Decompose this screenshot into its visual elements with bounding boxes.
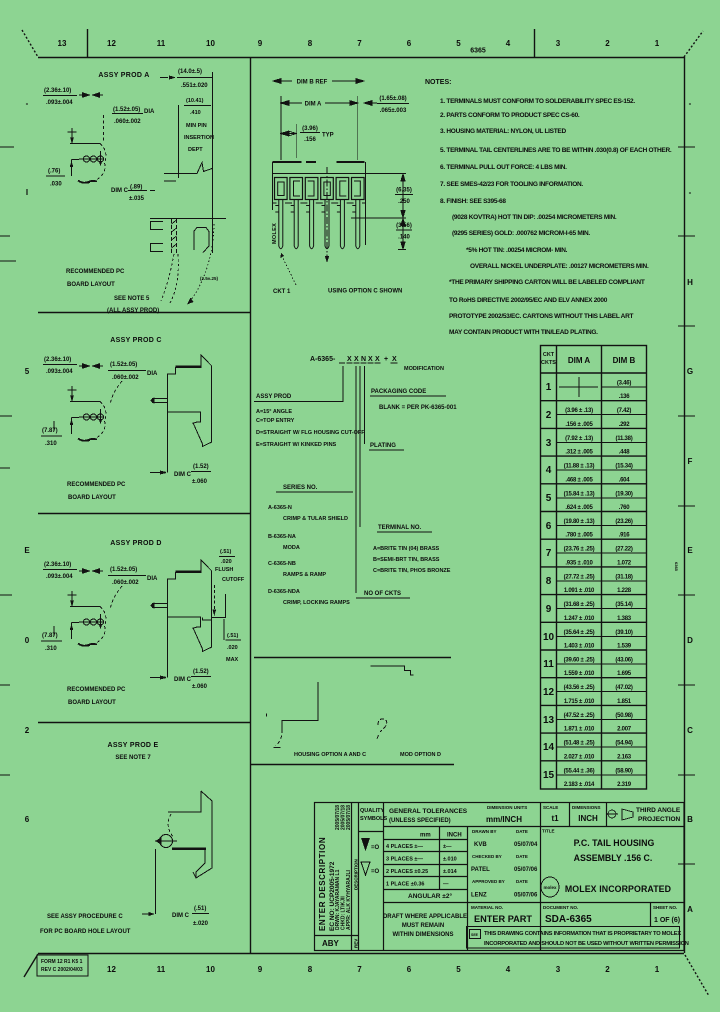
svg-text:HOUSING OPTION A AND C: HOUSING OPTION A AND C xyxy=(294,752,366,758)
svg-text:.780 ± .005: .780 ± .005 xyxy=(565,533,593,539)
section A pin dia fraction xyxy=(113,107,155,125)
svg-text:1.695: 1.695 xyxy=(617,671,632,677)
assy prod leader xyxy=(254,366,365,448)
packaging code label xyxy=(370,389,457,411)
svg-text:ASSY PROD C: ASSY PROD C xyxy=(110,337,161,344)
zone letters left edge xyxy=(24,99,30,824)
svg-text:7: 7 xyxy=(357,39,362,48)
svg-text:-: - xyxy=(689,99,692,108)
svg-text:.410: .410 xyxy=(190,110,201,116)
svg-text:APPROVED BY: APPROVED BY xyxy=(472,879,505,884)
svg-text:11: 11 xyxy=(157,39,166,48)
svg-text:6: 6 xyxy=(25,815,30,824)
svg-text:A-6365-N: A-6365-N xyxy=(268,505,292,511)
plating leader xyxy=(365,366,405,450)
svg-text:DIMENSIONS: DIMENSIONS xyxy=(572,805,601,810)
section D pin dia fraction xyxy=(110,567,158,586)
svg-text:PLATING: PLATING xyxy=(370,443,396,449)
svg-text:.065±.003: .065±.003 xyxy=(380,108,407,114)
svg-text:(54.94): (54.94) xyxy=(615,741,633,747)
section D pcb motif xyxy=(68,591,106,646)
svg-text:mm/INCH: mm/INCH xyxy=(486,815,522,824)
svg-text:1. TERMINALS MUST CONFORM TO: 1. TERMINALS MUST CONFORM TO SOLDERABILI… xyxy=(440,98,635,105)
svg-text:1.383: 1.383 xyxy=(617,616,632,622)
svg-text:SDA-6365: SDA-6365 xyxy=(545,914,592,925)
svg-text:(31.18): (31.18) xyxy=(615,574,633,580)
section divider A/C xyxy=(38,312,250,314)
svg-text:(39.10): (39.10) xyxy=(615,630,633,636)
table fraction bars xyxy=(557,377,646,775)
section C hole dim fraction xyxy=(44,357,73,375)
svg-text:(7.42): (7.42) xyxy=(617,408,631,414)
end clearance fraction xyxy=(377,96,409,114)
svg-text:DIA: DIA xyxy=(147,576,158,582)
svg-text:.020: .020 xyxy=(221,559,232,565)
table headers xyxy=(541,352,636,366)
svg-text:2005/07/18: 2005/07/18 xyxy=(346,805,352,830)
svg-text:8: 8 xyxy=(308,39,313,48)
section A hole depth fraction xyxy=(48,169,62,188)
svg-text:11: 11 xyxy=(157,965,166,974)
svg-text:12: 12 xyxy=(107,39,116,48)
dim A dimension xyxy=(281,96,377,160)
svg-text:1.228: 1.228 xyxy=(617,588,632,594)
svg-text:QUALITY: QUALITY xyxy=(360,808,384,814)
svg-text:BOARD LAYOUT: BOARD LAYOUT xyxy=(67,282,115,288)
svg-text:1.091 ± .010: 1.091 ± .010 xyxy=(564,588,595,594)
svg-text:(2.5±.25): (2.5±.25) xyxy=(200,276,218,281)
svg-text:(11.38): (11.38) xyxy=(616,436,633,442)
svg-text:.093±.004: .093±.004 xyxy=(46,574,73,580)
svg-text:+: + xyxy=(384,356,388,363)
svg-text:(1.52): (1.52) xyxy=(193,464,209,470)
svg-text:6365: 6365 xyxy=(674,562,679,572)
svg-text:.093±.004: .093±.004 xyxy=(46,100,73,106)
kinked pin squiggle xyxy=(377,719,387,740)
third angle projection symbol xyxy=(606,807,681,823)
section D side profile xyxy=(150,560,212,680)
svg-text:±.035: ±.035 xyxy=(129,196,145,202)
svg-text:8. FINISH: SEE S395-68: 8. FINISH: SEE S395-68 xyxy=(440,198,506,205)
zone letters right edge xyxy=(687,99,693,914)
svg-text:INCORPORATED AND SHOULD NOT BE: INCORPORATED AND SHOULD NOT BE USED WITH… xyxy=(484,941,689,947)
svg-text:N: N xyxy=(361,356,366,363)
svg-text:INCH: INCH xyxy=(447,833,462,839)
svg-text:RECOMMENDED PC: RECOMMENDED PC xyxy=(66,269,125,275)
svg-text:(1.52): (1.52) xyxy=(193,669,209,675)
fold tick top right xyxy=(534,29,536,57)
svg-text:CKTS: CKTS xyxy=(541,360,556,366)
svg-text:(6.35): (6.35) xyxy=(396,188,412,194)
svg-text:SEE NOTE 5: SEE NOTE 5 xyxy=(114,296,150,302)
svg-text:8: 8 xyxy=(546,576,552,587)
svg-text:G: G xyxy=(687,367,693,376)
fold tick top left xyxy=(87,29,89,57)
svg-text:BOARD LAYOUT: BOARD LAYOUT xyxy=(68,700,116,706)
housing option A/C sketch xyxy=(266,682,318,748)
svg-text:*5% HOT TIN: .00254 MICROM- MI: *5% HOT TIN: .00254 MICROM- MIN. xyxy=(466,247,568,254)
svg-text:BOARD LAYOUT: BOARD LAYOUT xyxy=(68,495,116,501)
left column divider xyxy=(250,57,252,953)
ckt 1 leader xyxy=(273,253,296,295)
svg-text:C=TOP ENTRY: C=TOP ENTRY xyxy=(256,418,295,424)
svg-text:13: 13 xyxy=(58,39,67,48)
zone ticks left edge xyxy=(0,147,16,775)
svg-text:6: 6 xyxy=(546,521,552,532)
svg-text:X: X xyxy=(392,356,397,363)
svg-text:A=BRITE TIN (04) BRASS: A=BRITE TIN (04) BRASS xyxy=(373,546,439,552)
svg-text:1: 1 xyxy=(546,382,552,393)
svg-text:RAMPS & RAMP: RAMPS & RAMP xyxy=(283,572,326,578)
svg-text:.468 ± .005: .468 ± .005 xyxy=(565,477,593,483)
svg-text:±.020: ±.020 xyxy=(193,921,209,927)
svg-text:(47.02): (47.02) xyxy=(615,685,633,691)
svg-text:7. SEE SMES-42/23 FOR TOOLING: 7. SEE SMES-42/23 FOR TOOLING INFORMATIO… xyxy=(440,181,583,188)
svg-text:H: H xyxy=(687,278,693,287)
svg-text:3 PLACES ±—: 3 PLACES ±— xyxy=(386,857,423,863)
svg-text:(3.96): (3.96) xyxy=(302,126,318,132)
svg-text:SERIES NO.: SERIES NO. xyxy=(283,485,318,491)
svg-text:ABY: ABY xyxy=(322,939,340,948)
svg-text:SYMBOLS: SYMBOLS xyxy=(360,816,388,822)
svg-text:.136: .136 xyxy=(619,394,631,400)
svg-text:ASSEMBLY .156 C.: ASSEMBLY .156 C. xyxy=(574,853,653,863)
svg-text:TO RoHS DIRECTIVE 2002/95/EC A: TO RoHS DIRECTIVE 2002/95/EC AND ELV ANN… xyxy=(449,297,608,304)
sign-off column xyxy=(471,829,538,899)
svg-text:2.163: 2.163 xyxy=(617,754,632,760)
svg-text:DRAFT WHERE APPLICABLE: DRAFT WHERE APPLICABLE xyxy=(383,914,467,920)
svg-text:SHEET NO.: SHEET NO. xyxy=(653,905,677,910)
svg-text:X: X xyxy=(375,356,380,363)
section A opposing arrows xyxy=(79,93,103,97)
section E dim c xyxy=(155,849,157,914)
svg-text:.030: .030 xyxy=(50,182,62,188)
svg-text:.310: .310 xyxy=(45,646,57,652)
svg-text:SEE NOTE 7: SEE NOTE 7 xyxy=(115,755,151,761)
svg-text:.020: .020 xyxy=(227,645,238,651)
svg-text:1 PLACE ±0.36: 1 PLACE ±0.36 xyxy=(386,882,424,888)
svg-text:3: 3 xyxy=(556,39,561,48)
svg-text:7: 7 xyxy=(546,548,552,559)
svg-text:A=15° ANGLE: A=15° ANGLE xyxy=(256,409,292,415)
svg-text:(1.52±.05): (1.52±.05) xyxy=(110,362,137,368)
svg-text:(39.60 ± .25): (39.60 ± .25) xyxy=(564,658,595,664)
svg-text:WITHIN DIMENSIONS: WITHIN DIMENSIONS xyxy=(393,932,454,938)
svg-text:MUST REMAIN: MUST REMAIN xyxy=(402,923,444,929)
section C pcb motif xyxy=(68,386,106,441)
circuit size table grid xyxy=(541,346,647,790)
svg-text:DIA: DIA xyxy=(147,371,158,377)
svg-text:DIM B REF: DIM B REF xyxy=(297,80,328,86)
svg-text:CKT 1: CKT 1 xyxy=(273,289,291,295)
svg-text:.935 ± .010: .935 ± .010 xyxy=(565,560,593,566)
table DIM A values xyxy=(564,408,595,788)
svg-text:E=STRAIGHT W/ KINKED PINS: E=STRAIGHT W/ KINKED PINS xyxy=(256,442,337,448)
pitch dimension 3.96 xyxy=(281,124,296,158)
section C hole spacing fraction xyxy=(42,428,58,447)
svg-text:(1.65±.08): (1.65±.08) xyxy=(379,96,406,102)
svg-text:CRIMP & TULAR SHIELD: CRIMP & TULAR SHIELD xyxy=(283,516,348,522)
svg-text:(.76): (.76) xyxy=(48,169,60,175)
svg-text:D-6365-NDA: D-6365-NDA xyxy=(268,589,300,595)
section divider D/E xyxy=(38,722,250,724)
general tolerances cell xyxy=(386,808,468,900)
svg-text:7: 7 xyxy=(357,965,362,974)
svg-text:.093±.004: .093±.004 xyxy=(46,369,73,375)
svg-text:1.559 ± .010: 1.559 ± .010 xyxy=(564,671,595,677)
svg-text:.060±.002: .060±.002 xyxy=(112,580,139,586)
right side stacked dimensions xyxy=(351,174,406,250)
svg-text:INCH: INCH xyxy=(578,814,598,823)
svg-text:ASSY PROD D: ASSY PROD D xyxy=(110,540,161,547)
svg-text:B=SEMI-BRT TIN, BRASS: B=SEMI-BRT TIN, BRASS xyxy=(373,557,440,563)
section divider C/D xyxy=(38,513,250,515)
zone ticks right edge xyxy=(678,147,695,864)
contact cavities xyxy=(275,178,365,200)
svg-text:10: 10 xyxy=(543,632,555,643)
dim B ref dimension xyxy=(273,79,364,84)
svg-text:15: 15 xyxy=(543,770,555,781)
section D hole dim fraction xyxy=(44,562,73,580)
svg-text:NO OF CKTS: NO OF CKTS xyxy=(364,591,401,597)
svg-text:5. TERMINAL TAIL CENTERLINES: 5. TERMINAL TAIL CENTERLINES ARE TO BE W… xyxy=(440,147,672,154)
svg-text:±—: ±— xyxy=(443,844,452,850)
svg-text:(.51): (.51) xyxy=(220,549,231,555)
svg-text:X: X xyxy=(347,356,352,363)
section A long extension line xyxy=(211,72,213,253)
svg-text:05/07/06: 05/07/06 xyxy=(514,893,538,899)
svg-text:—: — xyxy=(443,882,449,888)
svg-text:1.539: 1.539 xyxy=(617,644,632,650)
svg-text:CUTOFF: CUTOFF xyxy=(222,577,245,583)
svg-text:DATE: DATE xyxy=(516,854,528,859)
section A hole dim fraction xyxy=(44,88,73,106)
section A board line xyxy=(150,218,226,220)
svg-text:PROTOTYPE 2002/53/EC. CARTONS: PROTOTYPE 2002/53/EC. CARTONS WITHOUT TH… xyxy=(449,313,634,320)
svg-text:DIM B: DIM B xyxy=(613,356,636,365)
svg-text:ASSY PROD E: ASSY PROD E xyxy=(107,742,158,749)
svg-text:(1.52±.05): (1.52±.05) xyxy=(110,567,137,573)
svg-text:C-6365-NB: C-6365-NB xyxy=(268,561,296,567)
housing top line xyxy=(273,173,407,175)
section D flush cutoff note xyxy=(215,549,245,583)
svg-text:4: 4 xyxy=(506,965,511,974)
housing left edge xyxy=(272,162,274,210)
svg-text:PATEL: PATEL xyxy=(471,867,490,873)
svg-text:12: 12 xyxy=(543,687,555,698)
svg-text:DIM C: DIM C xyxy=(174,677,192,683)
svg-text:(.51): (.51) xyxy=(227,633,238,639)
svg-text:(35.14): (35.14) xyxy=(615,602,633,608)
svg-text:1 OF (6): 1 OF (6) xyxy=(654,917,680,924)
svg-text:14: 14 xyxy=(543,742,555,753)
svg-text:(27.22): (27.22) xyxy=(615,547,633,553)
svg-text:-: - xyxy=(26,99,29,108)
svg-text:(.89): (.89) xyxy=(130,185,142,191)
svg-text:(3.46): (3.46) xyxy=(617,381,631,387)
svg-text:05/07/06: 05/07/06 xyxy=(514,867,538,873)
svg-text:TERMINAL NO.: TERMINAL NO. xyxy=(378,525,422,531)
svg-text:4: 4 xyxy=(546,465,552,476)
svg-text:(2.36±.10): (2.36±.10) xyxy=(44,562,71,568)
svg-text:.624 ± .005: .624 ± .005 xyxy=(565,505,593,511)
svg-text:ASSY PROD A: ASSY PROD A xyxy=(98,72,149,79)
svg-text:DIM C: DIM C xyxy=(174,472,192,478)
svg-text:B-6365-NA: B-6365-NA xyxy=(268,534,296,540)
section C dashed leader xyxy=(110,381,122,405)
svg-text:05/07/04: 05/07/04 xyxy=(514,842,538,848)
svg-text:2: 2 xyxy=(605,965,610,974)
svg-text:BLANK = PER PK-6365-001: BLANK = PER PK-6365-001 xyxy=(379,405,457,411)
svg-text:MATERIAL NO.: MATERIAL NO. xyxy=(471,905,503,910)
svg-text:LENZ: LENZ xyxy=(471,893,487,899)
corner cut top-right xyxy=(684,31,703,57)
svg-text:REV: REV xyxy=(354,939,359,948)
frame bottom border xyxy=(38,953,684,955)
svg-text:t1: t1 xyxy=(551,814,559,823)
svg-text:(27.72 ± .25): (27.72 ± .25) xyxy=(564,574,595,580)
svg-text:D=STRAIGHT W/ FLG HOUSING CUT-: D=STRAIGHT W/ FLG HOUSING CUT-OFF xyxy=(256,430,365,436)
svg-text:12: 12 xyxy=(107,965,116,974)
series no leader xyxy=(268,485,353,606)
svg-text:E: E xyxy=(24,546,30,555)
frame right border xyxy=(684,57,686,953)
section A dotted leaders xyxy=(161,224,214,303)
svg-text:1.871 ± .010: 1.871 ± .010 xyxy=(564,727,595,733)
svg-text:APPR: ALK KYHYARAJLI: APPR: ALK KYHYARAJLI xyxy=(346,869,352,930)
svg-text:1.403 ± .010: 1.403 ± .010 xyxy=(564,644,595,650)
svg-text:2.007: 2.007 xyxy=(617,727,632,733)
proprietary note box xyxy=(467,927,689,949)
svg-text:(2.36±.10): (2.36±.10) xyxy=(44,88,71,94)
svg-text:DRAWN BY: DRAWN BY xyxy=(472,829,497,834)
svg-text:molex: molex xyxy=(543,885,557,890)
svg-text:.312 ± .005: .312 ± .005 xyxy=(565,450,593,456)
svg-text:DOCUMENT NO.: DOCUMENT NO. xyxy=(543,905,578,910)
svg-text:.156 ± .005: .156 ± .005 xyxy=(565,422,593,428)
svg-text:ENTER DESCRIPTION: ENTER DESCRIPTION xyxy=(318,837,327,931)
housing bottom edge segments xyxy=(273,202,366,204)
terminal no leader xyxy=(360,366,451,574)
svg-text:MAY CONTAIN PRODUCT WITH TIN/L: MAY CONTAIN PRODUCT WITH TIN/LEAD PLATIN… xyxy=(449,329,598,336)
svg-text:RECOMMENDED PC: RECOMMENDED PC xyxy=(67,482,126,488)
svg-text:0: 0 xyxy=(25,636,30,645)
svg-text:(51.48 ± .25): (51.48 ± .25) xyxy=(564,741,595,747)
svg-text:(50.98): (50.98) xyxy=(615,713,633,719)
svg-text:(15.84 ± .13): (15.84 ± .13) xyxy=(564,491,595,497)
svg-text:A-6365-: A-6365- xyxy=(310,356,336,363)
svg-text:DIMENSION UNITS: DIMENSION UNITS xyxy=(487,805,527,810)
svg-text:(10.41): (10.41) xyxy=(186,98,204,104)
svg-text:1.072: 1.072 xyxy=(617,560,632,566)
housing top rails xyxy=(273,161,365,163)
svg-text:MOD OPTION D: MOD OPTION D xyxy=(400,752,441,758)
svg-text:(58.90): (58.90) xyxy=(615,768,633,774)
section A pcb motif xyxy=(68,128,106,183)
svg-text:(UNLESS SPECIFIED): (UNLESS SPECIFIED) xyxy=(389,818,451,824)
svg-text:2: 2 xyxy=(546,410,552,421)
svg-text:2.183 ± .014: 2.183 ± .014 xyxy=(564,782,595,788)
svg-text:.916: .916 xyxy=(619,533,631,539)
svg-text:DATE: DATE xyxy=(516,829,528,834)
svg-text:mm: mm xyxy=(420,833,431,839)
svg-text:ENTER PART: ENTER PART xyxy=(474,914,532,924)
svg-text:FLUSH: FLUSH xyxy=(215,567,233,573)
terminal tails xyxy=(275,200,360,249)
svg-text:6: 6 xyxy=(407,965,412,974)
column numbers top xyxy=(58,39,660,48)
svg-text:F: F xyxy=(688,457,693,466)
svg-text:(55.44 ± .36): (55.44 ± .36) xyxy=(564,768,595,774)
svg-text:(43.06): (43.06) xyxy=(615,658,633,664)
svg-text:10: 10 xyxy=(206,965,215,974)
svg-text:MIN PIN: MIN PIN xyxy=(186,123,207,129)
svg-text:P.C. TAIL HOUSING: P.C. TAIL HOUSING xyxy=(574,838,655,848)
svg-text:±.060: ±.060 xyxy=(192,479,208,485)
svg-text:SEE ASSY PROCEDURE C: SEE ASSY PROCEDURE C xyxy=(47,914,123,920)
svg-text:(19.30): (19.30) xyxy=(615,491,633,497)
svg-text:4 PLACES ±—: 4 PLACES ±— xyxy=(386,844,423,850)
svg-text:ASSY PROD: ASSY PROD xyxy=(256,394,292,400)
svg-text:(14.0±.5): (14.0±.5) xyxy=(178,69,202,75)
svg-text:6. TERMINAL PULL OUT FORCE: 4: 6. TERMINAL PULL OUT FORCE: 4 LBS MIN. xyxy=(440,164,567,171)
svg-text:(7.92 ± .13): (7.92 ± .13) xyxy=(565,436,593,442)
section D cutoff step xyxy=(203,594,227,640)
svg-text:5: 5 xyxy=(456,39,461,48)
svg-text:(1.52±.05): (1.52±.05) xyxy=(113,107,140,113)
svg-text:(19.80 ± .13): (19.80 ± .13) xyxy=(564,519,595,525)
svg-text:DIM C: DIM C xyxy=(111,188,129,194)
svg-text:CHECKED BY: CHECKED BY xyxy=(472,854,502,859)
svg-text:NOTES:: NOTES: xyxy=(425,79,451,86)
svg-text:1.247 ± .010: 1.247 ± .010 xyxy=(564,616,595,622)
section A inner profile xyxy=(194,228,209,253)
svg-text:X: X xyxy=(354,356,359,363)
svg-text:(ALL ASSY PROD): (ALL ASSY PROD) xyxy=(107,308,159,314)
svg-text:A: A xyxy=(687,905,693,914)
svg-text:DIA: DIA xyxy=(144,109,155,115)
svg-text:2: 2 xyxy=(605,39,610,48)
svg-text:8: 8 xyxy=(308,965,313,974)
molex logo xyxy=(541,877,559,897)
svg-text:(23.26): (23.26) xyxy=(615,519,633,525)
svg-text:.760: .760 xyxy=(619,505,631,511)
svg-text:3: 3 xyxy=(556,965,561,974)
svg-text:9: 9 xyxy=(258,39,263,48)
svg-text:1.851: 1.851 xyxy=(617,699,632,705)
column numbers bottom xyxy=(107,965,660,974)
svg-text:1: 1 xyxy=(655,965,660,974)
svg-text:DIM A: DIM A xyxy=(305,102,322,108)
svg-text:OVERALL NICKEL UNDERPLATE: .00: OVERALL NICKEL UNDERPLATE: .00127 MICROM… xyxy=(470,263,649,270)
svg-text:.448: .448 xyxy=(619,450,631,456)
svg-text:*THE PRIMARY SHIPPING CARTON W: *THE PRIMARY SHIPPING CARTON WILL BE LAB… xyxy=(449,279,645,286)
svg-text:.604: .604 xyxy=(619,477,631,483)
svg-text:.060±.002: .060±.002 xyxy=(114,119,141,125)
notes list xyxy=(440,98,672,336)
svg-text:2.319: 2.319 xyxy=(617,782,632,788)
table DIM B values xyxy=(615,381,633,789)
svg-text:11: 11 xyxy=(543,659,554,670)
svg-text:9: 9 xyxy=(258,965,263,974)
svg-text:2.027 ± .010: 2.027 ± .010 xyxy=(564,754,595,760)
svg-text:(11.88 ± .13): (11.88 ± .13) xyxy=(564,464,595,470)
section A breakline xyxy=(164,163,212,174)
svg-text:.310: .310 xyxy=(45,441,57,447)
svg-text:FOR PC BOARD HOLE LAYOUT: FOR PC BOARD HOLE LAYOUT xyxy=(40,929,131,935)
form number box bottom left xyxy=(37,955,88,976)
svg-text:E: E xyxy=(687,546,693,555)
